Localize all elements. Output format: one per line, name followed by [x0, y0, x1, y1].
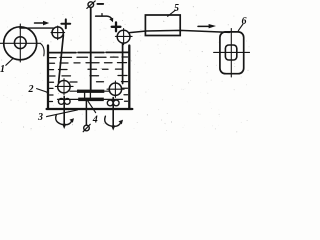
positive terminal (bottom) [83, 124, 90, 131]
curved belt-direction arrow (top middle) [96, 14, 114, 23]
svg-text:5: 5 [174, 3, 179, 14]
bottom rod to terminal [85, 101, 87, 125]
label 2 [28, 84, 49, 95]
negative terminal (top) [87, 1, 95, 8]
label 1 [0, 59, 13, 75]
belt: wheel top to small pulley [20, 27, 53, 29]
right stirrer [105, 98, 123, 131]
plus sign left [61, 19, 70, 28]
label 6 [238, 16, 246, 31]
lower electrode bar (workpiece 4) [58, 98, 123, 102]
long belt line to component 6 [130, 30, 230, 32]
plus sign right [112, 22, 121, 31]
component 6 (belt head) [214, 29, 250, 77]
svg-text:4: 4 [92, 115, 98, 126]
belt: small pulley down into vessel [59, 35, 64, 83]
upper electrode bar [70, 90, 110, 93]
svg-text:1: 1 [0, 64, 5, 75]
pulley (upper right) [115, 29, 132, 45]
electrode link rods [85, 93, 91, 99]
label 3 [37, 110, 77, 123]
bottom-left pulley (in vessel) [55, 79, 73, 95]
electrode rod (center) [90, 8, 92, 91]
label 4 [88, 101, 98, 125]
belt motion arrow (right) [198, 24, 216, 28]
minus sign [97, 3, 103, 5]
box 5 [145, 15, 180, 36]
small pulley (upper left) [51, 26, 65, 40]
left stirrer 3 [56, 97, 74, 130]
liquid shading dashes [50, 57, 128, 102]
bottom-right pulley (in vessel) [107, 81, 124, 97]
svg-text:3: 3 [37, 112, 43, 123]
label 5 [168, 3, 179, 16]
belt: right pulley down into vessel [122, 44, 124, 84]
drive wheel 1 [0, 24, 44, 62]
belt motion arrow (top left) [35, 21, 50, 26]
vessel 2 walls [47, 46, 133, 110]
svg-text:2: 2 [28, 84, 34, 95]
liquid surface line [49, 51, 129, 53]
